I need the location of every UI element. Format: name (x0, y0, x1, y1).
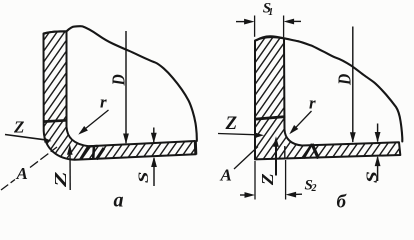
break line / outer body freehand curve b (257, 36, 403, 141)
section body a: wall + corner elbow + bottom strip (hatched) (44, 31, 196, 159)
svg-text:r: r (100, 93, 107, 112)
leader for r b (291, 111, 312, 133)
svg-text:D: D (334, 74, 354, 86)
weld joint line across wall a (43, 120, 67, 121)
svg-text:A: A (220, 166, 232, 185)
svg-text:S: S (364, 171, 381, 183)
svg-text:Z: Z (225, 113, 238, 134)
svg-text:1: 1 (268, 7, 273, 18)
svg-text:б: б (337, 192, 348, 210)
svg-text:a: a (114, 190, 124, 210)
dimension D b: line and arrow (352, 27, 354, 143)
dimension S b: short upper arrow (377, 124, 379, 142)
dimension Z vertical b: shaft and arrow (275, 140, 277, 176)
svg-text:Z: Z (13, 118, 24, 137)
dimension S2 b: extension lines (254, 161, 256, 200)
dimension Z vertical a: shaft and arrow (69, 148, 71, 190)
dimension S1 b: arrows (236, 21, 246, 23)
weld joint line across wall b (255, 117, 286, 120)
leader for A b (234, 147, 258, 170)
butt joint line in strip b (284, 146, 286, 159)
weld seam marks in strip a (92, 146, 95, 159)
dimension D a: line and arrow (125, 31, 127, 143)
break line / outer body freehand curve a (44, 26, 197, 141)
svg-text:D: D (108, 74, 128, 86)
dimension S b: lower arrow (377, 157, 379, 181)
leader for Z a (5, 135, 45, 140)
leader for A a (1, 180, 15, 191)
section body b: wall + bottom strip with fillet (hatched) (255, 37, 400, 159)
leader for r a (80, 110, 109, 133)
svg-text:S: S (136, 172, 152, 184)
weld seam triangle in strip b (304, 144, 312, 158)
svg-text:Z: Z (258, 173, 277, 186)
dimension S a: lower arrow (153, 158, 155, 186)
dimension S2 b: arrows (240, 194, 247, 196)
svg-text:A: A (16, 164, 28, 183)
svg-text:2: 2 (311, 183, 317, 194)
dimension S1 b: extension lines (254, 16, 256, 37)
svg-text:r: r (309, 94, 316, 113)
dimension S a: short upper arrow (153, 128, 155, 143)
svg-text:Z: Z (51, 171, 70, 188)
leader for Z b with arrow (218, 134, 254, 135)
